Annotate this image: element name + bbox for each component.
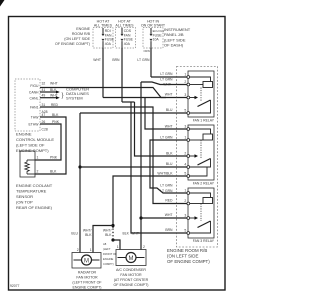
relay K2 link dashed: [200, 140, 202, 159]
relay K3 coil: [190, 193, 211, 198]
fuse box 2 (CDS FAN FUSE 40A): [115, 20, 135, 49]
label motor M2: [114, 268, 149, 287]
sensor pin 1 PNK: [37, 156, 58, 160]
svg-text:40A: 40A: [124, 42, 131, 46]
connector label A8: [103, 242, 117, 266]
svg-text:49: 49: [42, 94, 46, 98]
fuse box 3 (ECU IG1 FUSE, Instrument Panel J/B): [141, 20, 166, 49]
svg-text:BLK: BLK: [105, 233, 112, 237]
label motor M1: [72, 271, 102, 290]
motor M1 radiator fan motor: [72, 248, 101, 268]
svg-text:WHT: WHT: [165, 93, 173, 97]
svg-text:PNK: PNK: [50, 156, 58, 160]
svg-text:}: }: [62, 93, 64, 99]
svg-text:3: 3: [184, 213, 186, 217]
relay K2 coil: [190, 129, 211, 134]
svg-text:PNK: PNK: [52, 120, 60, 124]
relay K1 link dashed: [200, 88, 202, 102]
svg-text:RED: RED: [51, 103, 59, 107]
svg-text:FAN 3 RELAY: FAN 3 RELAY: [193, 239, 215, 243]
svg-text:LT GRN: LT GRN: [160, 136, 173, 140]
svg-text:SENSOR: SENSOR: [16, 194, 33, 199]
svg-text:WHT/: WHT/: [83, 229, 92, 233]
svg-text:REAR OF ENGINE): REAR OF ENGINE): [16, 205, 53, 210]
relay K1 switch: [190, 97, 195, 99]
node junction WHT/BLK branch M1: [111, 224, 114, 227]
thermistor R (zigzag): [25, 160, 35, 174]
fuse box 1 (Engine Room R/B, RDI FAN FUSE 40A): [93, 20, 113, 49]
wire LT GRN to relay1 pin 2: [141, 78, 187, 85]
svg-text:40A: 40A: [105, 42, 112, 46]
wire WHT fuse F1 to relay1 pin 3: [103, 93, 187, 98]
svg-text:WHT/BLK: WHT/BLK: [157, 172, 173, 176]
svg-text:FRONT OF: FRONT OF: [103, 252, 117, 256]
sensor pin 2 BLK: [37, 170, 58, 174]
svg-text:(LEFT: (LEFT: [103, 247, 111, 251]
node junction BLU: [78, 165, 81, 168]
fuse F1 RDI FAN FUSE 40A: [102, 28, 115, 48]
svg-text:(ON LEFT SIDE: (ON LEFT SIDE: [64, 37, 90, 41]
svg-text:WHT: WHT: [131, 232, 139, 236]
ECM pin FAN1 31 RED: [30, 103, 45, 110]
svg-text:BLK: BLK: [50, 170, 57, 174]
svg-text:2: 2: [77, 248, 79, 252]
label Engine Room R/B: [55, 27, 91, 46]
relay K3 link dashed: [200, 204, 202, 222]
svg-text:1: 1: [37, 156, 39, 160]
svg-text:ALL TIMES: ALL TIMES: [94, 24, 113, 28]
svg-text:ON OR START: ON OR START: [141, 24, 166, 28]
svg-text:LT GRN: LT GRN: [160, 78, 173, 82]
wire BRN from fuse F2 down: [112, 48, 122, 102]
svg-text:1: 1: [117, 245, 119, 249]
svg-text:2: 2: [184, 151, 186, 155]
svg-text:FIGU: FIGU: [30, 84, 39, 88]
svg-text:(ON TOP: (ON TOP: [16, 200, 33, 205]
svg-text:ETHW: ETHW: [29, 123, 40, 127]
relay K2 FAN 2 RELAY: [184, 124, 214, 185]
wire labels above motor M1: [71, 229, 112, 238]
wire WHT to relay3 pin 3: [141, 213, 187, 218]
svg-text:4: 4: [184, 162, 186, 166]
svg-text:C28: C28: [42, 128, 48, 132]
ECM pin CANL 49 WHT: [29, 94, 59, 101]
wire WHT from fuse F1 down: [93, 48, 103, 98]
svg-text:26: 26: [42, 120, 46, 124]
wire WHT branch to relay2 pin 3: [145, 98, 187, 130]
label computer data lines: [62, 87, 90, 101]
wire LT GRN to relay1 pin 1: [151, 72, 187, 77]
svg-text:(LEFT FRONT OF: (LEFT FRONT OF: [72, 281, 102, 285]
svg-text:COMPT): COMPT): [103, 262, 114, 266]
svg-text:ROOM R/B: ROOM R/B: [72, 32, 91, 36]
svg-text:ENGINE COMPT): ENGINE COMPT): [73, 286, 102, 290]
svg-text:2: 2: [37, 170, 39, 174]
svg-text:ENGINE: ENGINE: [16, 132, 32, 137]
svg-text:5: 5: [184, 171, 186, 175]
ECM pin ETHW 26 PNK: [29, 120, 61, 160]
svg-text:CANH: CANH: [29, 91, 39, 95]
relay K2 switch: [190, 155, 195, 157]
svg-text:M: M: [84, 258, 89, 264]
wire LT GRN from fuse F3 down: [137, 48, 151, 77]
svg-text:5: 5: [184, 228, 186, 232]
svg-text:BLK: BLK: [85, 233, 92, 237]
label Engine Room R/B lower: [167, 248, 210, 264]
svg-text:BRN: BRN: [112, 58, 120, 62]
ECM pin CANH 41 BLK: [29, 88, 60, 95]
svg-text:FAN 2 RELAY: FAN 2 RELAY: [193, 182, 215, 186]
svg-text:LT GRN: LT GRN: [137, 58, 150, 62]
svg-text:FAN MOTOR: FAN MOTOR: [76, 276, 98, 280]
wire LT GRN relay2 pin 1 / relay3 pin 1: [150, 136, 187, 194]
svg-text:BLU: BLU: [71, 232, 78, 236]
svg-text:FAN 1 RELAY: FAN 1 RELAY: [193, 119, 215, 123]
wire WHT/BLK vertical feed relay1 pin2 down to motor M2 pin2: [140, 82, 142, 245]
svg-text:32: 32: [42, 82, 46, 86]
svg-text:1: 1: [90, 248, 92, 252]
svg-text:ENGINE: ENGINE: [76, 27, 90, 31]
svg-text:BRN: BRN: [165, 228, 173, 232]
label coolant temp sensor: [16, 183, 53, 210]
svg-text:WHT: WHT: [50, 82, 58, 86]
page corner mark: [0, 0, 5, 7]
svg-text:(LEFT SIDE OF: (LEFT SIDE OF: [16, 143, 45, 148]
label ECM: [16, 132, 54, 154]
svg-text:10A: 10A: [153, 38, 160, 42]
svg-text:ENGINE COMPT): ENGINE COMPT): [16, 148, 49, 153]
svg-text:2: 2: [184, 199, 186, 203]
border frame: [9, 17, 226, 291]
wire BLK jog to motor M2 pin1: [113, 240, 120, 250]
svg-text:OF DASH): OF DASH): [164, 43, 184, 48]
svg-text:1: 1: [184, 135, 186, 139]
svg-text:FAN1: FAN1: [30, 106, 39, 110]
svg-text:2: 2: [143, 245, 145, 249]
wire BLU branch to relay2 pin 4: [80, 162, 187, 167]
relay K3 FAN 3 RELAY: [184, 188, 214, 243]
wire RED ECM pin31 to relay3 pin 2: [40, 103, 187, 204]
svg-text:TEMPERATURE: TEMPERATURE: [16, 189, 47, 194]
svg-text:FAN MOTOR: FAN MOTOR: [120, 273, 142, 277]
engine coolant temperature sensor box: [20, 151, 35, 177]
svg-text:BLK: BLK: [123, 232, 130, 236]
fuse F2 CDS FAN FUSE 40A: [121, 28, 134, 48]
svg-text:THW: THW: [31, 116, 40, 120]
svg-text:RED: RED: [165, 199, 173, 203]
relay K3 switch: [190, 217, 195, 219]
svg-text:1: 1: [184, 72, 186, 76]
svg-text:WHT: WHT: [93, 58, 101, 62]
wire WHT/BLK branch to motor M1 pin1: [93, 226, 113, 253]
svg-text:LT GRN: LT GRN: [160, 189, 173, 193]
wire WHT ECM pin32 to relay1 pin 3: [40, 83, 171, 98]
svg-text:(ON LEFT SIDE: (ON LEFT SIDE: [167, 254, 198, 259]
node junction WHT relay3 pin3: [139, 216, 142, 219]
svg-text:BLK: BLK: [52, 113, 59, 117]
wire WHT to motor M2 pin2: [140, 245, 142, 250]
svg-text:3: 3: [184, 124, 186, 128]
svg-text:OF ENGINE COMPT): OF ENGINE COMPT): [167, 259, 210, 264]
wire labels above motor M2: [123, 232, 140, 236]
wire BLU relay1 pin5: [80, 108, 187, 113]
node junction WHT/BLK jog M2: [111, 238, 114, 241]
svg-text:SYSTEM: SYSTEM: [66, 96, 83, 101]
svg-text:(AT FRONT CENTER: (AT FRONT CENTER: [114, 278, 149, 282]
svg-text:31: 31: [42, 103, 46, 107]
svg-text:ENGINE COOLANT: ENGINE COOLANT: [16, 183, 53, 188]
svg-text:LT GRN: LT GRN: [160, 72, 173, 76]
svg-text:ALL TIMES: ALL TIMES: [115, 24, 134, 28]
ECM pin THW 47 BLK: [31, 113, 66, 174]
ECM pin FANH: [30, 82, 57, 89]
svg-text:WHT: WHT: [165, 125, 173, 129]
svg-text:RADIATOR: RADIATOR: [78, 271, 97, 275]
svg-text:BLU: BLU: [166, 162, 173, 166]
ECM (engine control module) dashed box: [15, 79, 40, 131]
svg-text:OF ENGINE COMPT): OF ENGINE COMPT): [55, 42, 90, 46]
svg-text:1: 1: [184, 188, 186, 192]
svg-text:BLK: BLK: [166, 152, 173, 156]
svg-text:92077: 92077: [10, 284, 20, 288]
wire LT GRN second label relay3 pin1: [160, 184, 173, 193]
relay box enclosure (Engine Room R/B) dashed: [177, 67, 218, 248]
svg-text:47: 47: [42, 113, 46, 117]
svg-text:CONTROL MODULE: CONTROL MODULE: [16, 137, 54, 142]
relay K1 FAN 1 RELAY: [184, 71, 214, 123]
motor M2 a/c condenser fan motor: [116, 245, 146, 266]
svg-text:CANL: CANL: [29, 97, 38, 101]
svg-text:2: 2: [184, 80, 186, 84]
svg-text:LT GRN: LT GRN: [160, 184, 173, 188]
relay K1 coil: [190, 77, 211, 82]
svg-text:A/C CONDENSER: A/C CONDENSER: [116, 268, 146, 272]
svg-text:OF ENGINE COMPT): OF ENGINE COMPT): [114, 283, 149, 287]
wire BRN vertical long to relay3 pin5: [131, 102, 187, 233]
svg-text:WHT: WHT: [165, 213, 173, 217]
wire BLU vertical to motor M1: [79, 113, 81, 253]
svg-text:ENGINE: ENGINE: [103, 257, 114, 261]
svg-text:5: 5: [184, 108, 186, 112]
svg-text:WHT/: WHT/: [103, 229, 112, 233]
svg-text:A8: A8: [103, 242, 107, 246]
fuse F3 ECU IG1 FUSE 10A: [150, 28, 165, 48]
svg-text:ENGINE ROOM R/B: ENGINE ROOM R/B: [167, 248, 207, 253]
wire CDS BRN corner: [122, 101, 135, 103]
svg-text:WHT: WHT: [163, 83, 171, 87]
label Instrument Panel J/B: [164, 27, 191, 48]
svg-text:ORN: ORN: [144, 49, 150, 53]
svg-text:3: 3: [184, 93, 186, 97]
svg-text:BLU: BLU: [166, 108, 173, 112]
wire BLK vertical to relay2 pin2: [135, 102, 187, 156]
wire WHT/BLK relay2 pin5 down to motors: [113, 172, 187, 242]
svg-text:M: M: [129, 256, 134, 262]
